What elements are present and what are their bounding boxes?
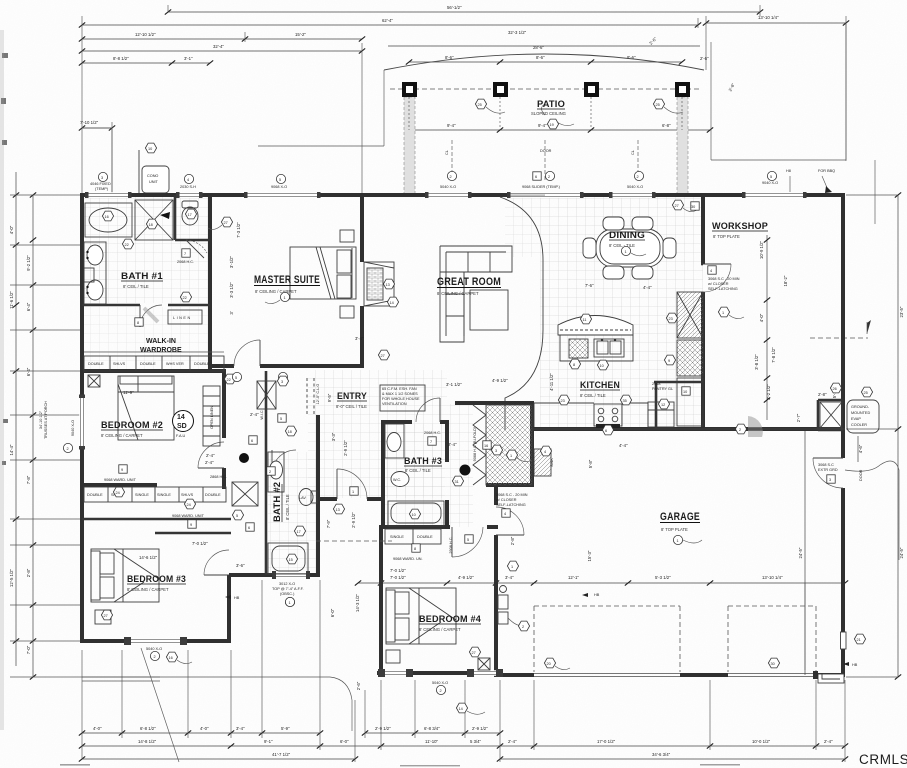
svg-text:5: 5 (279, 178, 281, 182)
svg-text:9068 SLIDER (TEMP.): 9068 SLIDER (TEMP.) (522, 185, 561, 189)
svg-text:22: 22 (183, 296, 187, 300)
svg-text:10'-9 1/2": 10'-9 1/2" (759, 240, 764, 259)
label BEDROOM #2 (101, 420, 163, 438)
svg-text:12'-10 1/2": 12'-10 1/2" (135, 32, 156, 37)
TILE-FLOORS (84, 197, 703, 573)
svg-text:9: 9 (668, 359, 670, 363)
grade flag right (867, 320, 871, 334)
svg-text:SINK: SINK (550, 458, 554, 467)
dim col left inner (26, 192, 48, 679)
svg-text:w/ CLOSER: w/ CLOSER (496, 498, 517, 502)
svg-text:9068 WARD. UNIT: 9068 WARD. UNIT (104, 478, 137, 482)
svg-text:2: 2 (739, 428, 741, 432)
svg-text:13'-10 1/4": 13'-10 1/4" (758, 15, 779, 20)
wall master east (360, 195, 364, 368)
hex markers scattered (102, 211, 113, 221)
svg-text:17: 17 (188, 213, 192, 217)
svg-text:4'-0": 4'-0" (9, 225, 14, 234)
dining table (583, 217, 676, 279)
extra hex kitchen wall (602, 425, 613, 435)
svg-text:9: 9 (190, 523, 192, 527)
svg-text:4: 4 (544, 450, 546, 454)
wall bath3 east (445, 420, 449, 529)
svg-text:56'-1/2": 56'-1/2" (447, 5, 462, 10)
svg-text:CRMLS: CRMLS (859, 752, 907, 767)
label PATIO (531, 99, 566, 116)
svg-text:SD: SD (177, 423, 187, 430)
svg-text:12'-1": 12'-1" (568, 575, 579, 580)
svg-text:2'-9 1/2": 2'-9 1/2" (472, 726, 488, 731)
svg-text:30: 30 (691, 205, 695, 209)
svg-text:6: 6 (535, 175, 537, 179)
svg-text:8' CEILING / CARPET: 8' CEILING / CARPET (127, 587, 169, 592)
svg-text:3'-1": 3'-1" (184, 56, 193, 61)
svg-text:HB: HB (594, 593, 600, 597)
svg-text:26: 26 (833, 387, 837, 391)
svg-text:UNIT: UNIT (149, 180, 159, 184)
svg-text:9: 9 (121, 468, 123, 472)
door bath1 to wardrobe (140, 305, 162, 327)
wall garage south pads (496, 673, 845, 677)
svg-text:11: 11 (583, 318, 587, 322)
svg-text:9068 X-O: 9068 X-O (271, 185, 287, 189)
dim row 12-10 / 15-2 (79, 32, 365, 42)
svg-text:BATH #1: BATH #1 (121, 271, 164, 282)
dim row 56'-1/2 (165, 5, 763, 15)
wall entry front (316, 497, 385, 501)
svg-text:10: 10 (412, 513, 416, 517)
svg-text:CL: CL (631, 150, 635, 155)
label DINING (609, 230, 645, 248)
bedroom4 closet row (385, 529, 441, 544)
svg-text:22: 22 (125, 243, 129, 247)
svg-text:3'-4": 3'-4" (236, 726, 245, 731)
svg-text:8' CEIL / TILE: 8' CEIL / TILE (123, 284, 149, 289)
bath1 tub (85, 203, 132, 237)
window bath2 south 3012 obscure (272, 571, 310, 579)
svg-text:& MAX 1 1/2 SONES: & MAX 1 1/2 SONES (382, 392, 418, 396)
svg-text:14'-6 1/2": 14'-6 1/2" (139, 555, 158, 560)
window greatroom 5040 (425, 192, 472, 198)
svg-text:KITCHEN: KITCHEN (580, 380, 620, 391)
window toilet 2030 SH (176, 192, 203, 198)
svg-text:1: 1 (284, 296, 286, 300)
svg-text:14: 14 (177, 414, 185, 421)
svg-text:WHS VER: WHS VER (166, 362, 184, 366)
svg-text:34'-10 1/2": 34'-10 1/2" (39, 410, 43, 429)
wall water heater closet garage (818, 400, 843, 430)
MARKERS (101, 200, 872, 714)
dim row 8-8 / 3-1 (79, 56, 213, 66)
svg-text:3': 3' (229, 311, 234, 314)
svg-text:FOR BBQ: FOR BBQ (818, 169, 835, 173)
svg-text:SINGLE: SINGLE (157, 493, 171, 497)
master bed (290, 230, 356, 318)
svg-text:30: 30 (771, 662, 775, 666)
svg-text:12'-0" C.L.G: 12'-0" C.L.G (316, 384, 320, 405)
svg-text:1: 1 (625, 250, 627, 254)
svg-text:18'-2": 18'-2" (783, 275, 788, 286)
wall workshop west / pantry east (701, 195, 705, 429)
svg-text:25: 25 (656, 103, 660, 107)
svg-text:6'-0": 6'-0" (330, 608, 335, 617)
garage wall fixture (498, 586, 508, 625)
wardrobe shelf row (84, 356, 224, 371)
svg-text:MASTER SUITE: MASTER SUITE (254, 274, 320, 286)
svg-text:PANTRY GL: PANTRY GL (652, 387, 673, 391)
svg-text:14'-3 1/2": 14'-3 1/2" (355, 593, 360, 612)
svg-text:7'-10 1/2": 7'-10 1/2" (80, 120, 99, 125)
svg-text:2: 2 (440, 689, 442, 693)
svg-text:8' CEILING / CARPET: 8' CEILING / CARPET (437, 291, 479, 296)
patio door labels (445, 149, 635, 155)
post ties (409, 97, 682, 130)
vent note box (380, 385, 425, 411)
garage door dashed bay1 (534, 606, 680, 672)
extension lines left (10, 195, 160, 677)
svg-text:11'-9": 11'-9" (123, 390, 134, 395)
svg-text:w/ CLOSER: w/ CLOSER (708, 282, 729, 286)
svg-text:7: 7 (184, 252, 186, 256)
svg-text:10: 10 (600, 364, 604, 368)
svg-text:18: 18 (288, 430, 292, 434)
svg-text:TOP @ 7'-4" A.F.F.: TOP @ 7'-4" A.F.F. (272, 587, 304, 591)
svg-text:22: 22 (227, 378, 231, 382)
window master 9068 XO (244, 192, 321, 198)
dim 4-6 evap (858, 436, 863, 462)
svg-text:18: 18 (149, 223, 153, 227)
svg-text:SINGLE: SINGLE (390, 535, 404, 539)
svg-text:8' CEILING / CARPET: 8' CEILING / CARPET (101, 433, 143, 438)
svg-text:7'-8 1/2": 7'-8 1/2" (771, 347, 776, 363)
porch edge lines (82, 677, 352, 731)
svg-text:2: 2 (548, 175, 550, 179)
svg-text:65 C.F.M. ESH. FAN: 65 C.F.M. ESH. FAN (382, 387, 417, 391)
svg-text:9'-4": 9'-4" (447, 123, 456, 128)
wall wardrobe south bedroom2 north (82, 369, 226, 373)
wall evap pad (701, 263, 703, 266)
label bedroom3 window (146, 647, 162, 661)
svg-text:4'-4": 4'-4" (643, 285, 652, 290)
svg-text:4046 FIXED: 4046 FIXED (90, 182, 111, 186)
svg-text:16: 16 (169, 656, 173, 660)
svg-text:32'-3 1/2": 32'-3 1/2" (508, 30, 527, 35)
roofline top-left corner (82, 128, 112, 195)
pantry lower (677, 340, 703, 376)
DOORS (140, 240, 843, 575)
svg-text:15: 15 (289, 558, 293, 562)
pantry base (677, 378, 703, 426)
svg-text:GROUND-: GROUND- (851, 405, 870, 409)
wall bedroom2 east (222, 371, 226, 489)
svg-text:5: 5 (770, 175, 772, 179)
svg-text:LINEN: LINEN (173, 316, 192, 320)
svg-text:9'-2 1/2": 9'-2 1/2" (26, 255, 31, 271)
arc shade garage NE (748, 416, 763, 437)
wall jog bedroom3 east (227, 575, 231, 643)
svg-text:2068 S.C - 20 MIN: 2068 S.C - 20 MIN (496, 493, 528, 497)
svg-text:17: 17 (297, 530, 301, 534)
hex cono (145, 143, 156, 153)
DIMENSIONS-BOTTOM (79, 575, 848, 762)
svg-text:W.I.C: W.I.C (260, 410, 264, 420)
svg-text:2068: 2068 (652, 382, 660, 386)
bath3 toilet (391, 472, 409, 487)
post shaft left (404, 97, 415, 195)
hex patio 25 left (475, 99, 505, 113)
label 2868 HC (424, 430, 441, 445)
svg-text:WORKSHOP: WORKSHOP (712, 221, 768, 232)
label bedroom4 window (432, 681, 448, 695)
smoke detector dot hall2 (460, 465, 471, 476)
door front entry (337, 469, 367, 499)
label window 4046 (90, 172, 111, 191)
bath1 shower (135, 200, 173, 240)
workshop interior dims (754, 235, 788, 420)
note garage east door (818, 463, 863, 483)
svg-text:BEDROOM #3: BEDROOM #3 (127, 574, 186, 585)
wall west exterior (80, 193, 84, 641)
kitchen island (558, 316, 633, 362)
svg-text:3068 S.C - 20 MIN: 3068 S.C - 20 MIN (708, 277, 740, 281)
svg-text:W.C.: W.C. (393, 478, 401, 482)
wall laundry closet north (455, 401, 534, 405)
label BATH #2 vertical (272, 482, 290, 522)
svg-text:TRUSSES AT PORCH: TRUSSES AT PORCH (44, 401, 48, 439)
svg-text:SELF-LATCHING: SELF-LATCHING (496, 503, 526, 507)
svg-text:11'-6 1/2": 11'-6 1/2" (9, 291, 14, 309)
extra circ master window (232, 372, 241, 381)
svg-text:2: 2 (522, 625, 524, 629)
svg-text:4: 4 (187, 178, 189, 182)
svg-text:15'-3": 15'-3" (587, 550, 592, 561)
svg-text:DOOR: DOOR (540, 149, 552, 153)
label patio window 5040 left (440, 171, 457, 189)
label ENTRY (336, 391, 367, 409)
svg-text:8' CEIL / TILE: 8' CEIL / TILE (285, 494, 290, 520)
door garage east exterior (813, 458, 843, 488)
svg-text:MOUNTED: MOUNTED (851, 411, 870, 415)
label WALK-IN WARDROBE (140, 338, 182, 354)
door bedroom3 (204, 550, 229, 575)
svg-text:7'-0 1/2": 7'-0 1/2" (390, 568, 406, 573)
svg-text:7'-0 1/2": 7'-0 1/2" (192, 541, 208, 546)
PATIO-STRUCTURE (82, 23, 875, 224)
WINDOWS (79, 192, 846, 677)
patio post 1 (402, 82, 417, 97)
svg-text:1: 1 (511, 565, 513, 569)
front porch dashed ceiling (316, 540, 392, 542)
hex patio 19 (542, 104, 575, 129)
svg-text:2'-4": 2'-4" (206, 453, 215, 458)
door bedroom2 (198, 442, 224, 468)
patio roof arc (384, 54, 704, 70)
svg-text:13'-10 1/4": 13'-10 1/4" (762, 575, 783, 580)
svg-text:5 3/4": 5 3/4" (470, 739, 482, 744)
svg-text:FOR WHOLE HOUSE: FOR WHOLE HOUSE (382, 397, 420, 401)
great room sofa (440, 246, 512, 342)
svg-text:3: 3 (101, 176, 103, 180)
svg-text:4'-6": 4'-6" (858, 444, 863, 453)
door hall to garage (496, 507, 524, 535)
svg-text:5'-8": 5'-8" (588, 459, 593, 468)
wall hall east upper (265, 371, 268, 450)
patio post 4 (675, 82, 690, 97)
svg-text:16: 16 (484, 444, 488, 448)
door bedroom4 (452, 527, 483, 557)
svg-text:CL: CL (445, 150, 449, 155)
svg-text:41'-7 1/2": 41'-7 1/2" (272, 752, 291, 757)
svg-text:9'-1": 9'-1" (264, 739, 273, 744)
svg-text:5'-9": 5'-9" (281, 726, 290, 731)
svg-text:12: 12 (661, 403, 665, 407)
svg-text:15'-2": 15'-2" (295, 32, 306, 37)
svg-text:BEDROOM #2: BEDROOM #2 (101, 420, 163, 431)
wall bedroom3 north closet (82, 519, 231, 533)
wall garage door sills (534, 674, 816, 677)
svg-text:24'-5": 24'-5" (899, 547, 904, 558)
svg-text:4'-11 1/2": 4'-11 1/2" (549, 373, 554, 391)
svg-text:8: 8 (137, 321, 139, 325)
svg-text:5: 5 (467, 538, 469, 542)
svg-text:3'-4": 3'-4" (505, 575, 514, 580)
wall bedroom4 south (377, 671, 498, 675)
patio roof right edge (711, 23, 875, 224)
svg-text:7'-0": 7'-0" (26, 645, 31, 654)
svg-text:9'-5": 9'-5" (327, 393, 332, 402)
svg-text:4'-0": 4'-0" (759, 313, 764, 322)
svg-text:4'-9 1/2": 4'-9 1/2" (492, 378, 508, 383)
svg-text:10: 10 (683, 390, 687, 394)
svg-text:2'-4": 2'-4" (205, 460, 214, 465)
laundry sink (534, 449, 554, 476)
wall bath3 west (381, 420, 385, 529)
svg-text:23'-5": 23'-5" (899, 306, 904, 317)
svg-text:1: 1 (289, 601, 291, 605)
note workshop door (708, 266, 740, 291)
FIXTURES (84, 200, 879, 672)
wall bath2 south (229, 573, 318, 577)
wall bedroom3 south (80, 639, 231, 643)
svg-text:2'-9 1/2": 2'-9 1/2" (343, 440, 348, 456)
wall garage west (494, 485, 498, 677)
svg-text:9'-4": 9'-4" (538, 123, 547, 128)
bath1 wall cab (84, 268, 94, 282)
svg-text:WARDROBE: WARDROBE (140, 347, 182, 354)
window bedroom4 south left 5040 (378, 669, 413, 677)
dim mid garage row (355, 575, 848, 586)
label WORKSHOP (712, 221, 768, 239)
svg-text:3068 S.C: 3068 S.C (818, 463, 834, 467)
svg-text:DOUBLE: DOUBLE (417, 535, 433, 539)
DIMENSIONS-TOP (79, 5, 849, 195)
evap cooler box (847, 400, 879, 433)
svg-text:2030 S-H: 2030 S-H (180, 185, 196, 189)
svg-text:27: 27 (381, 354, 385, 358)
wall north exterior (82, 193, 845, 197)
linen closet wardrobe (168, 310, 202, 324)
svg-text:PATIO: PATIO (537, 99, 565, 110)
svg-text:F.A.U: F.A.U (176, 434, 186, 438)
svg-text:8' CEILING / CARPET: 8' CEILING / CARPET (419, 627, 461, 632)
HB markers (582, 593, 600, 597)
svg-text:3'-1/2": 3'-1/2" (229, 255, 234, 268)
bedroom3 side table (95, 610, 111, 624)
scan flecks left border (1, 53, 8, 465)
tile floor dining kitchen (540, 197, 703, 427)
svg-text:27: 27 (675, 204, 679, 208)
svg-text:8' CEILING / CARPET: 8' CEILING / CARPET (255, 289, 297, 294)
svg-text:17'-0 1/2": 17'-0 1/2" (597, 739, 616, 744)
svg-text:6'-8 1/2": 6'-8 1/2" (140, 726, 156, 731)
leader diagonal porch (141, 648, 179, 762)
svg-text:GREAT ROOM: GREAT ROOM (437, 276, 501, 288)
svg-text:1: 1 (722, 311, 724, 315)
svg-text:9068 WARD. UN.: 9068 WARD. UN. (393, 557, 423, 561)
wall master south (210, 364, 364, 368)
garage door dashed bay2 (728, 606, 816, 672)
squiggle right (845, 461, 899, 560)
svg-text:14: 14 (390, 301, 394, 305)
extra hex workshop s (735, 424, 746, 434)
label window 9040 workshop (762, 171, 778, 185)
svg-text:24: 24 (116, 491, 120, 495)
svg-text:LAV: LAV (299, 496, 306, 500)
bath2 tub (268, 543, 308, 574)
svg-text:27: 27 (472, 651, 476, 655)
door center lines patio (452, 140, 638, 182)
label GARAGE (660, 511, 702, 545)
svg-text:8'-0" CEIL / TILE: 8'-0" CEIL / TILE (336, 404, 367, 409)
svg-text:16: 16 (105, 215, 109, 219)
svg-text:32'-4": 32'-4" (213, 44, 224, 49)
extra hex entry (506, 450, 532, 462)
svg-text:14: 14 (459, 707, 463, 711)
label pantry (652, 382, 690, 409)
label KITCHEN (580, 380, 620, 398)
svg-text:3'-3": 3'-3" (331, 432, 336, 441)
bath2 toilet (299, 489, 317, 506)
svg-text:SLOPED CEILING: SLOPED CEILING (531, 111, 566, 116)
linen tall bedroom2 (203, 386, 220, 446)
svg-text:2: 2 (637, 175, 639, 179)
wall kitchen garage north (532, 427, 845, 431)
bedroom2 bed (118, 376, 174, 440)
svg-text:21: 21 (857, 638, 861, 642)
window dining 5040 (609, 192, 656, 198)
dim col garage inner 24-5 (798, 430, 805, 675)
smoke detector dot hall1 (239, 453, 249, 463)
svg-text:DOUBLE: DOUBLE (205, 493, 221, 497)
svg-text:5'-3 1/2": 5'-3 1/2" (655, 575, 671, 580)
svg-text:2'-6": 2'-6" (356, 681, 361, 690)
svg-text:1: 1 (510, 454, 512, 458)
patio roof left edge (258, 70, 384, 146)
wall bath3 north (381, 420, 449, 424)
label patio window 5040 right (627, 171, 644, 189)
svg-text:20: 20 (547, 662, 551, 666)
extension lines top (82, 5, 846, 195)
svg-text:31: 31 (455, 480, 459, 484)
svg-text:8' CEIL / TILE: 8' CEIL / TILE (580, 393, 606, 398)
svg-text:3'-1 1/2": 3'-1 1/2" (446, 382, 462, 387)
svg-text:3: 3 (495, 449, 497, 453)
svg-text:GARAGE: GARAGE (660, 511, 700, 523)
window bath1 4046 fixed (85, 192, 132, 198)
vent garage east wall (841, 632, 847, 649)
svg-text:EVAP: EVAP (851, 417, 861, 421)
svg-text:(TEMP): (TEMP) (95, 187, 109, 191)
